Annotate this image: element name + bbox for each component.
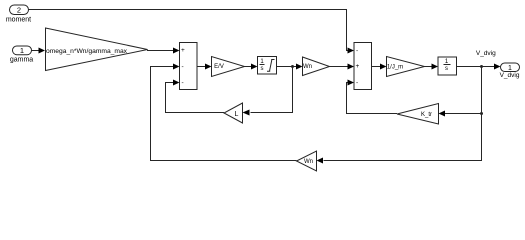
arrowhead 1/J_m to integrator2 <box>432 64 439 70</box>
integrator1 1/s fraction bar <box>260 64 265 66</box>
arrowhead K path to sum2 bottom <box>348 80 355 86</box>
outport 1 V_dvig <box>501 63 520 72</box>
arrowhead into L gain <box>243 110 250 116</box>
svg-text:1/J_m: 1/J_m <box>387 65 403 71</box>
svg-text:Wn: Wn <box>304 159 313 165</box>
wire Wn bottom out to sum1 mid <box>151 67 297 161</box>
arrowhead L to sum1 bottom <box>173 80 180 86</box>
wire V_dvig feedback down right side <box>324 67 482 161</box>
integrator2 <box>438 57 457 75</box>
svg-text:-: - <box>182 63 184 70</box>
integrator1 saturation glyph <box>267 59 275 71</box>
wire moment to sum2 top <box>29 10 348 51</box>
gain 1/J_m <box>387 57 425 77</box>
svg-text:K_tr: K_tr <box>421 112 432 118</box>
junction node B <box>480 65 483 68</box>
wire L out to sum1 bottom <box>166 83 225 113</box>
arrowhead sum1 to E/V <box>205 64 212 70</box>
gain Wn <box>303 57 330 76</box>
sum block sum2 <box>354 43 372 90</box>
svg-text:-: - <box>182 79 184 86</box>
svg-text:1: 1 <box>20 46 24 55</box>
inport 2 moment <box>10 5 29 15</box>
arrowhead gamma to gain <box>39 48 46 54</box>
svg-text:Wn: Wn <box>303 64 312 70</box>
svg-text:gamma: gamma <box>10 56 33 63</box>
svg-text:V_dvig: V_dvig <box>500 72 520 79</box>
wire K_tr out to sum2 bottom <box>347 83 398 114</box>
inport 1 gamma <box>13 46 32 55</box>
arrowhead into Wn bottom gain <box>317 158 324 164</box>
svg-text:-: - <box>356 47 358 54</box>
gain L <box>224 103 243 123</box>
arrowhead Wn bottom to sum1 mid <box>173 64 180 70</box>
svg-text:V_dvig: V_dvig <box>476 50 496 57</box>
wire E/V to integrator1 <box>245 66 252 68</box>
wire sum1 out to E/V <box>197 66 205 68</box>
arrowhead moment to sum2 top <box>348 48 355 54</box>
wire L feedback from node A down <box>251 67 293 113</box>
arrowhead into K_tr gain <box>439 111 446 117</box>
svg-text:1: 1 <box>508 65 512 72</box>
wire 1/J_m to integrator2 <box>425 66 432 68</box>
sum block sum1 <box>180 43 198 90</box>
wire Wn to sum2 mid <box>330 66 349 68</box>
svg-text:+: + <box>181 47 185 54</box>
wire integrator2 to outport with junction <box>457 66 495 68</box>
arrowhead E/V to integrator1 <box>251 64 258 70</box>
svg-text:s: s <box>261 66 264 72</box>
integrator1 (limited) <box>258 57 277 75</box>
gain K_tr <box>397 104 439 125</box>
junction node C <box>480 112 483 115</box>
svg-text:moment: moment <box>6 16 31 23</box>
integrator2 fraction bar <box>444 64 451 66</box>
arrowhead Wn to sum2 <box>348 64 355 70</box>
arrowhead integrator2 to outport <box>494 64 501 70</box>
svg-text:+: + <box>356 63 360 70</box>
wire gamma to gain <box>32 50 40 52</box>
wire sum2 out to 1/J_m <box>372 66 381 68</box>
arrowhead sum2 to 1/J_m <box>380 64 387 70</box>
svg-text:2: 2 <box>17 5 21 14</box>
arrowhead gain to sum1 <box>173 48 180 54</box>
junction node A <box>291 65 294 68</box>
svg-text:L: L <box>235 111 239 118</box>
gain omega_n*Wn/gamma_max <box>46 28 148 71</box>
wire gain to sum1 top <box>148 49 174 52</box>
svg-text:-: - <box>356 79 358 86</box>
svg-text:omega_n*Wn/gamma_max: omega_n*Wn/gamma_max <box>46 48 128 55</box>
gain Wn bottom <box>297 151 317 171</box>
arrowhead to Wn <box>296 64 303 70</box>
gain E/V <box>212 57 245 77</box>
wire integrator1 to Wn with branch junction <box>277 66 297 68</box>
svg-text:E/V: E/V <box>214 64 224 70</box>
svg-text:s: s <box>445 66 448 72</box>
wire K_tr branch <box>445 113 482 115</box>
